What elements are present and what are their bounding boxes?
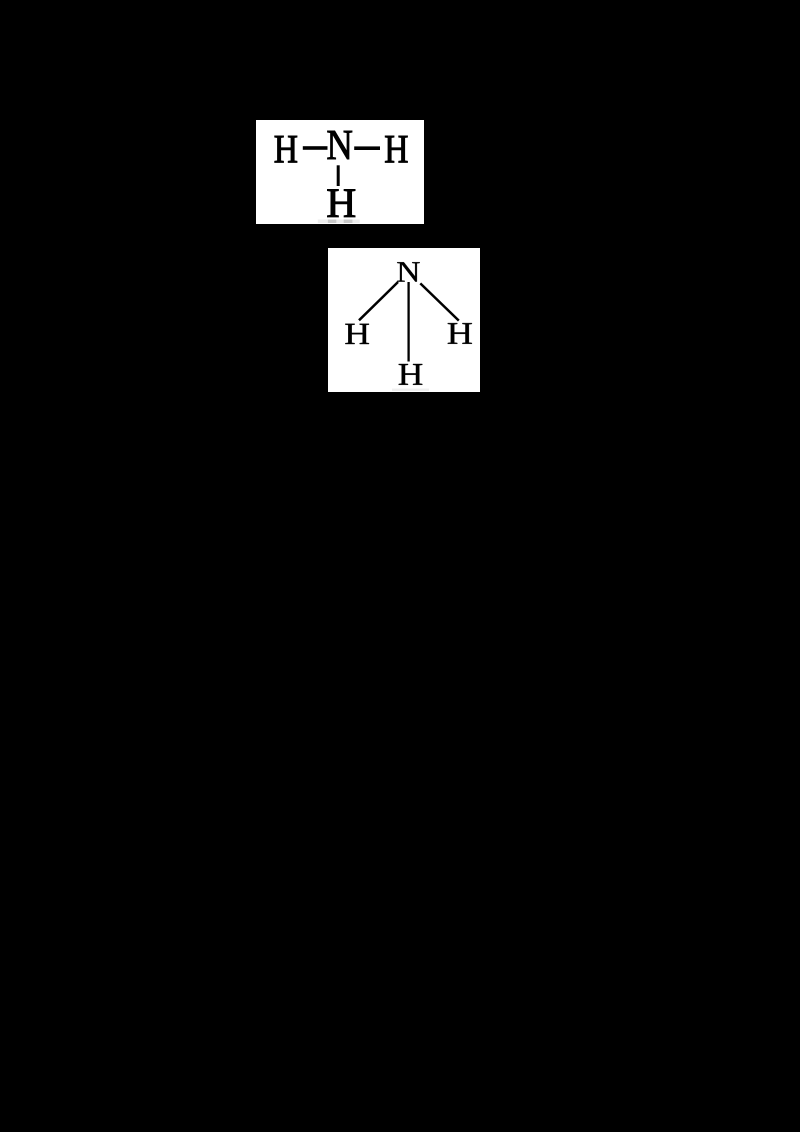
atom H3 (bottom H): [328, 189, 356, 216]
atom H1 (left H of H-N-H): [275, 136, 297, 162]
bond N-H bottom (vertical): [407, 282, 409, 362]
bond H1-N (horizontal dash): [303, 146, 328, 150]
panel 2: NH3 trigonal diagram (N bonded to three H): [328, 248, 480, 392]
atom H2 (right H of H-N-H): [385, 136, 407, 162]
cropped artifact smear below bottom H: [392, 389, 429, 391]
cropped watermark artifact strip: [318, 220, 360, 224]
atom H right: [448, 323, 472, 344]
atom N (apex nitrogen): [397, 262, 419, 281]
bond N-H3 (vertical): [337, 165, 340, 186]
atom H bottom: [399, 364, 423, 385]
bond N-H left (diagonal): [359, 282, 398, 320]
panel 1: NH3 structural formula (H-N-H with H below): [256, 120, 424, 224]
bond N-H2 (horizontal dash): [354, 146, 380, 150]
atom N (central nitrogen): [328, 131, 352, 159]
bond N-H right (diagonal): [420, 283, 459, 320]
atom H left: [345, 324, 369, 344]
